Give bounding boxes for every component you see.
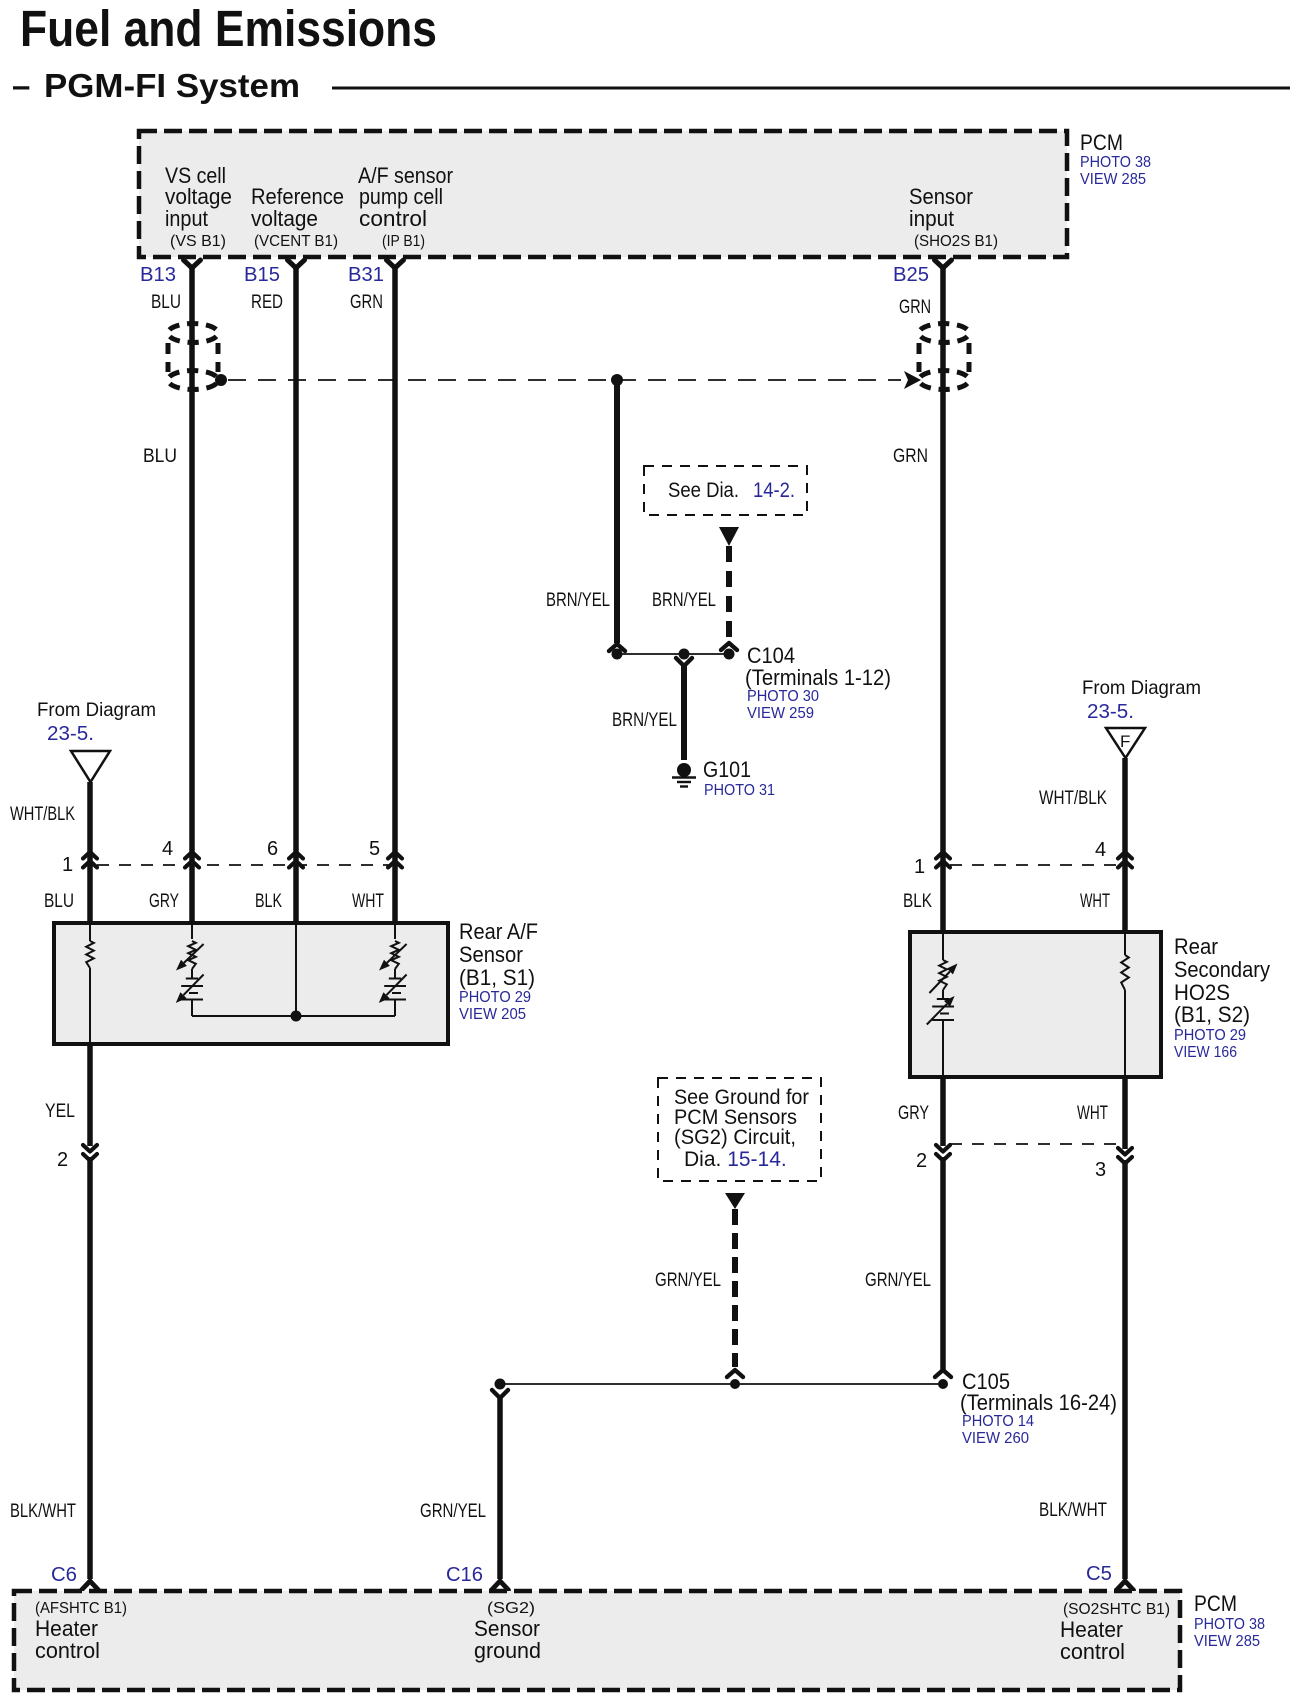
PCM pin B13 (140, 260, 201, 286)
ground G101 symbol (672, 763, 696, 787)
svg-text:PHOTO 38: PHOTO 38 (1194, 1616, 1265, 1633)
svg-text:Rear A/F: Rear A/F (459, 919, 538, 944)
connector dashed line (right sensor bottom) (950, 1143, 1118, 1145)
svg-text:C16: C16 (446, 1564, 483, 1586)
terminal chevron at C104 (left) (609, 644, 625, 651)
wire BRN/YEL from shield link down (614, 380, 620, 643)
C105 dot left (495, 1379, 506, 1390)
wire GRN/YEL (right mid) (940, 1157, 946, 1370)
Rear A/F Sensor label (459, 919, 538, 1023)
svg-text:WHT: WHT (352, 891, 384, 912)
internal junction line (192, 1015, 395, 1017)
PCM box (bottom) (14, 1591, 1180, 1690)
arrow from See Dia. box (719, 527, 739, 546)
connector terminal chevrons at x=1125 (right top) (1118, 852, 1132, 868)
svg-text:ground: ground (474, 1638, 541, 1663)
wire WHT into right sensor box (1122, 863, 1128, 934)
from-diagram triangle F (right) (1106, 728, 1145, 758)
svg-text:GRN/YEL: GRN/YEL (420, 1501, 486, 1522)
svg-text:From Diagram: From Diagram (1082, 677, 1201, 699)
svg-text:B13: B13 (140, 264, 176, 286)
variable sensor element (WHT wire) (394, 925, 396, 939)
wire B25 GRN vertical (940, 267, 946, 862)
svg-text:BLK/WHT: BLK/WHT (10, 1501, 76, 1522)
C104 connector line (617, 653, 729, 655)
connector terminal chevrons at x=90 (83, 852, 97, 868)
svg-text:BLK: BLK (255, 891, 282, 912)
svg-text:1: 1 (914, 856, 925, 878)
svg-text:WHT: WHT (1077, 1103, 1108, 1124)
arrow from See Ground box (725, 1193, 745, 1209)
svg-text:GRY: GRY (149, 891, 179, 912)
PCM label (bottom right) (1194, 1591, 1265, 1650)
variable sensor element (BLK wire, right box) (942, 934, 944, 960)
svg-text:(AFSHTC B1): (AFSHTC B1) (35, 1600, 127, 1617)
svg-text:Dia. 15-14.: Dia. 15-14. (684, 1148, 787, 1171)
shield link arrowhead (904, 371, 921, 389)
svg-text:F: F (1120, 732, 1130, 751)
heater element (WHT wire) (379, 975, 407, 1017)
connector pin 2 (right) (916, 1145, 950, 1172)
svg-text:PCM: PCM (1194, 1591, 1237, 1616)
connector terminal chevrons at x=296 (289, 852, 303, 868)
junction dot on shield link (611, 374, 623, 386)
connector pin 2 (left) (57, 1145, 97, 1171)
pin label: VS cell voltage input (VS B1) (165, 163, 232, 250)
See Ground reference box (658, 1078, 821, 1181)
svg-text:VIEW 285: VIEW 285 (1194, 1633, 1260, 1650)
C105 dot right (938, 1379, 948, 1389)
svg-text:input: input (909, 206, 954, 231)
svg-text:WHT/BLK: WHT/BLK (10, 804, 75, 825)
connector terminal chevrons at x=395 (388, 852, 402, 868)
wire WHT/BLK (right) (1122, 758, 1128, 862)
svg-text:See Dia.: See Dia. (668, 479, 739, 502)
svg-text:BLU: BLU (151, 292, 181, 313)
C105 label (960, 1369, 1117, 1447)
heater element (right box) (927, 996, 955, 1075)
svg-text:BRN/YEL: BRN/YEL (652, 590, 716, 611)
svg-text:PHOTO 29: PHOTO 29 (1174, 1027, 1246, 1044)
svg-text:6: 6 (267, 838, 278, 860)
PCM box (top) (139, 131, 1067, 257)
wire B15 RED vertical (293, 267, 299, 862)
svg-text:Secondary: Secondary (1174, 957, 1270, 982)
Rear A/F Sensor box (54, 923, 448, 1044)
C104 dot left (612, 649, 623, 660)
fork terminal below C105 left (492, 1390, 508, 1398)
svg-text:4: 4 (162, 838, 173, 860)
PCM label (top right) (1080, 130, 1151, 188)
svg-text:GRN/YEL: GRN/YEL (865, 1270, 931, 1291)
shield (noise suppressor) on GRN wire (919, 324, 969, 390)
svg-text:control: control (35, 1638, 100, 1663)
wire WHT long right (1122, 1160, 1128, 1579)
terminal fork C5 (1117, 1581, 1134, 1590)
svg-text:YEL: YEL (45, 1101, 75, 1122)
svg-text:BRN/YEL: BRN/YEL (612, 710, 677, 731)
svg-text:3: 3 (1095, 1159, 1106, 1181)
svg-text:PGM-FI System: PGM-FI System (44, 67, 300, 104)
svg-text:VIEW 166: VIEW 166 (1174, 1044, 1237, 1061)
C104 label (745, 643, 891, 722)
terminal chevron at C104 (right) (721, 643, 737, 650)
C104 dot middle (679, 649, 690, 660)
svg-text:1: 1 (62, 854, 73, 876)
sensor element resistor (BLU wire) (89, 925, 91, 941)
svg-text:WHT: WHT (1080, 891, 1110, 912)
svg-text:input: input (165, 206, 208, 231)
wire BLU into left sensor box (87, 863, 93, 925)
wire WHT below right box (1122, 1077, 1128, 1149)
sensor resistor (WHT wire, right box) (1124, 934, 1126, 955)
connector dashed line (right sensor top) (950, 864, 1118, 866)
svg-text:Fuel and Emissions: Fuel and Emissions (20, 0, 437, 57)
svg-text:(B1, S2): (B1, S2) (1174, 1002, 1250, 1027)
dashed wire BRN/YEL below See Dia. box (726, 546, 732, 642)
wire GRY below right box (940, 1077, 946, 1146)
svg-text:BLU: BLU (44, 891, 74, 912)
svg-text:PHOTO 38: PHOTO 38 (1080, 154, 1151, 171)
svg-text:G101: G101 (703, 757, 751, 782)
G101 label (703, 757, 775, 799)
svg-text:C5: C5 (1086, 1563, 1112, 1585)
wire B13 BLU vertical (189, 267, 195, 862)
dashed wire GRN/YEL below See Ground box (732, 1209, 738, 1367)
See Dia. 14-2. reference box (644, 466, 807, 515)
svg-text:VIEW 260: VIEW 260 (962, 1430, 1029, 1447)
wire B31 GRN vertical (392, 267, 398, 862)
svg-text:BLU: BLU (143, 446, 177, 467)
wire BLK into right sensor box (940, 863, 946, 934)
svg-text:(VS B1): (VS B1) (170, 233, 226, 250)
wire BLK/WHT long left (87, 1157, 93, 1579)
pin label: (SG2) Sensor ground (474, 1600, 541, 1663)
svg-text:voltage: voltage (251, 206, 318, 231)
heater element (GRY wire) (176, 975, 204, 1017)
svg-text:4: 4 (1095, 839, 1106, 861)
svg-text:(SHO2S B1): (SHO2S B1) (914, 233, 998, 250)
From Diagram 23-5. (left) (37, 699, 156, 745)
svg-text:C6: C6 (51, 1564, 77, 1586)
shield link start dot (215, 374, 227, 386)
svg-text:(Terminals 16-24): (Terminals 16-24) (960, 1390, 1117, 1415)
Rear Secondary HO2S box (910, 932, 1161, 1077)
C105 dot middle (730, 1379, 740, 1389)
From Diagram 23-5. (right) (1082, 677, 1201, 723)
svg-text:control: control (359, 206, 427, 231)
pin label: Reference voltage (VCENT B1) (251, 184, 344, 250)
Rear Secondary HO2S label (1174, 934, 1270, 1061)
svg-text:(Terminals 1-12): (Terminals 1-12) (745, 665, 891, 690)
connector terminal chevrons at x=943 (right top) (936, 852, 950, 868)
wire GRN/YEL to C16 (497, 1397, 503, 1579)
svg-text:control: control (1060, 1639, 1125, 1664)
wire WHT/BLK (left) (87, 782, 93, 862)
svg-text:PHOTO 29: PHOTO 29 (459, 989, 531, 1006)
pin label: (AFSHTC B1) Heater control (35, 1600, 127, 1663)
connector pin 3 (right) (1095, 1148, 1132, 1181)
wire WHT into left sensor box (392, 863, 398, 925)
from-diagram triangle (left) (71, 751, 110, 782)
subtitle: PGM-FI System (12, 67, 300, 104)
connector dashed line (left sensor) (97, 864, 390, 866)
svg-text:B31: B31 (348, 264, 384, 286)
svg-text:PHOTO 14: PHOTO 14 (962, 1413, 1034, 1430)
svg-text:GRN: GRN (350, 292, 383, 313)
svg-text:Sensor: Sensor (459, 942, 523, 967)
svg-text:GRN: GRN (899, 297, 931, 318)
terminal chevron above C105 (right) (935, 1370, 951, 1377)
svg-text:–: – (12, 67, 30, 104)
svg-text:(VCENT B1): (VCENT B1) (254, 233, 338, 250)
wire BLK into left sensor box (293, 863, 299, 925)
svg-text:BRN/YEL: BRN/YEL (546, 590, 610, 611)
wire YEL below left box (87, 1044, 93, 1146)
svg-text:BLK: BLK (903, 891, 932, 912)
svg-text:VIEW 259: VIEW 259 (747, 705, 814, 722)
svg-text:BLK/WHT: BLK/WHT (1039, 1500, 1107, 1521)
svg-text:23-5.: 23-5. (47, 723, 94, 745)
svg-text:GRN/YEL: GRN/YEL (655, 1270, 721, 1291)
svg-text:B15: B15 (244, 264, 280, 286)
terminal chevron above C105 (middle) (727, 1370, 743, 1377)
svg-text:PHOTO 31: PHOTO 31 (704, 782, 775, 799)
svg-text:From Diagram: From Diagram (37, 699, 156, 721)
svg-text:VIEW 205: VIEW 205 (459, 1006, 526, 1023)
pin label: Sensor input (SHO2S B1) (909, 184, 998, 250)
shield ground dashed link line (228, 379, 901, 381)
terminal fork C6 (82, 1581, 99, 1590)
wire GRY into left sensor box (189, 863, 195, 925)
svg-text:(IP B1): (IP B1) (382, 233, 425, 250)
header rule line (332, 87, 1290, 90)
pin label: A/F sensor pump cell control (IP B1) (358, 163, 453, 250)
C105 connector line (500, 1383, 943, 1385)
pin label: (SO2SHTC B1) Heater control (1060, 1601, 1170, 1664)
svg-text:GRY: GRY (898, 1103, 929, 1124)
internal junction dot (291, 1011, 302, 1022)
PCM pin B25 (893, 260, 952, 286)
svg-text:PHOTO 30: PHOTO 30 (747, 688, 819, 705)
svg-text:14-2.: 14-2. (753, 479, 795, 502)
svg-text:5: 5 (369, 838, 380, 860)
svg-text:Rear: Rear (1174, 934, 1218, 959)
wire BRN/YEL to ground (681, 665, 687, 760)
shield (noise suppressor) on BLU wire (168, 324, 218, 390)
svg-text:23-5.: 23-5. (1087, 701, 1134, 723)
svg-text:(SO2SHTC B1): (SO2SHTC B1) (1063, 1601, 1170, 1618)
svg-text:(SG2) Circuit,: (SG2) Circuit, (674, 1126, 796, 1149)
PCM pin B15 (244, 260, 305, 286)
svg-text:WHT/BLK: WHT/BLK (1039, 788, 1107, 809)
svg-text:RED: RED (251, 292, 283, 313)
svg-text:2: 2 (57, 1149, 68, 1171)
svg-text:(SG2): (SG2) (487, 1600, 535, 1617)
svg-text:B25: B25 (893, 264, 929, 286)
fork terminal below C104 (676, 658, 692, 666)
svg-text:(B1, S1): (B1, S1) (459, 965, 535, 990)
C104 dot right (724, 649, 735, 660)
svg-text:VIEW 285: VIEW 285 (1080, 171, 1146, 188)
svg-text:2: 2 (916, 1150, 927, 1172)
svg-text:PCM: PCM (1080, 130, 1123, 155)
svg-text:GRN: GRN (893, 446, 928, 467)
terminal fork C16 (492, 1581, 509, 1590)
variable sensor element (GRY wire) (191, 925, 193, 939)
internal BLK wire (295, 925, 297, 1016)
PCM pin B31 (348, 260, 404, 286)
connector terminal chevrons at x=192 (185, 852, 199, 868)
